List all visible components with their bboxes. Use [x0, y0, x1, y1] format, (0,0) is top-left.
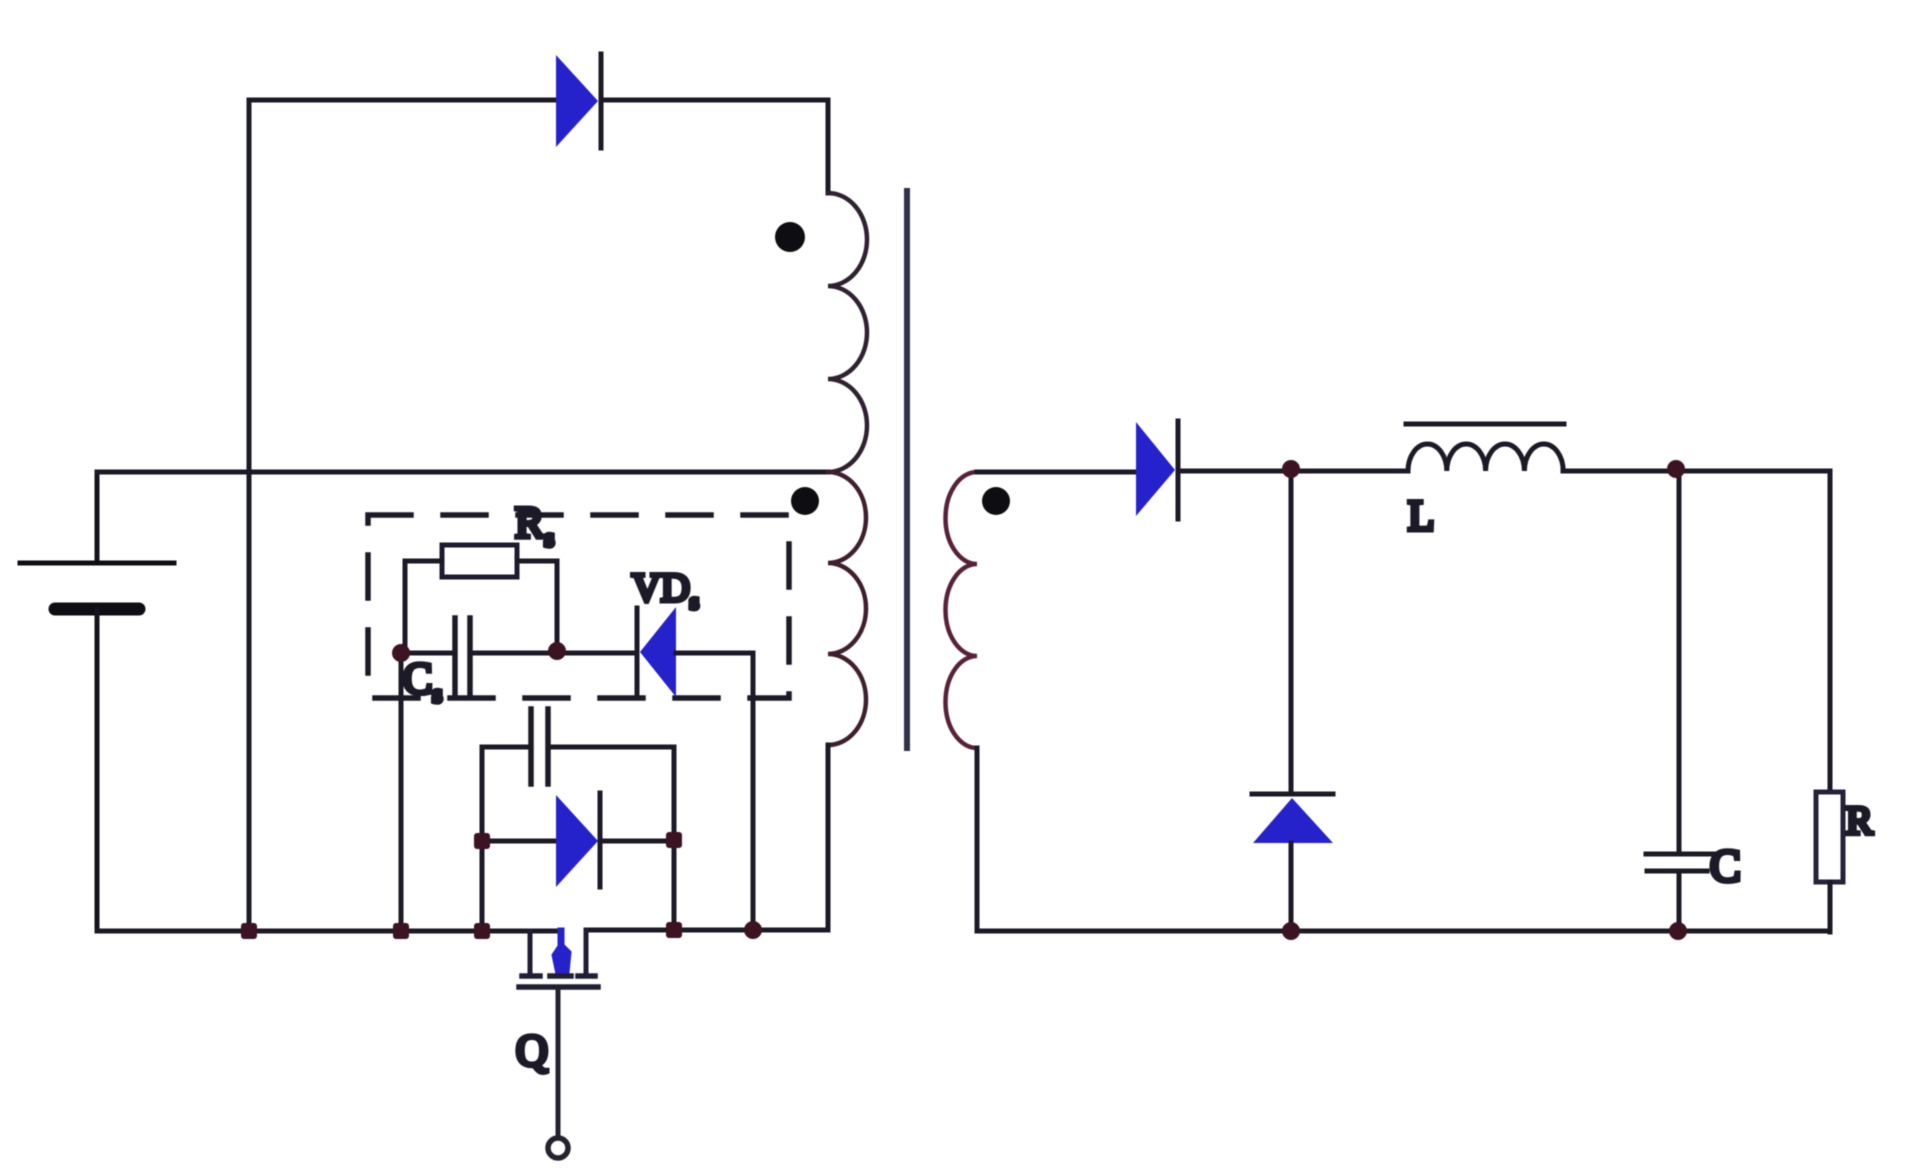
node secondary bottom at freewheel diode [1282, 922, 1300, 940]
wire top rail from VD1 cathode to transformer reset winding [601, 98, 828, 103]
node bottom rail at Cs branch [393, 923, 409, 939]
transformer T1 secondary winding [946, 472, 977, 931]
diode VD2 (switch snubber diode) [482, 793, 674, 887]
diode VD1 (reset/demagnetizing diode) [556, 54, 601, 148]
svg-text:Q: Q [516, 1026, 548, 1075]
node bottom rail at snubber right leg [666, 922, 682, 938]
resistor Rs [405, 545, 557, 650]
battery B1 (DC source) [20, 472, 174, 931]
node snubber diode left [474, 833, 490, 849]
node junction dots [241, 460, 1687, 940]
svg-text:VDs: VDs [632, 565, 699, 614]
polarity dot (primary) [791, 487, 819, 515]
svg-text:Cs: Cs [403, 654, 442, 708]
wire rectifier to inductor [1178, 469, 1408, 474]
wire snubber right leg [672, 747, 677, 930]
wire secondary top rail to rectifier diode [977, 470, 1136, 475]
wire right edge down to load resistor [1828, 471, 1833, 792]
svg-text:L: L [1408, 493, 1434, 540]
capacitor C1 (switch snubber capacitor) [482, 709, 674, 784]
svg-text:Rs: Rs [515, 498, 554, 552]
transformer T1 primary winding (lower left) [828, 472, 866, 930]
diode VD2f (freewheeling diode) [1252, 471, 1333, 932]
polarity dot (reset winding) [775, 222, 805, 252]
svg-text:R: R [1846, 798, 1873, 843]
node secondary top at output capacitor [1667, 460, 1685, 478]
diode VDs (clamp diode) [637, 607, 753, 930]
wire inductor to output node and right edge [1563, 469, 1830, 474]
wire snubber left leg [480, 747, 485, 931]
wire Cs branch down to negative rail [399, 653, 404, 931]
wire bottom rail (drain side, right of switch Q) [586, 928, 828, 933]
node Rs/Cs left [392, 644, 410, 662]
wire battery positive rail to transformer primary junction [97, 470, 828, 475]
capacitor C (output filter) [1646, 471, 1713, 932]
node bottom rail at snubber left leg [474, 923, 490, 939]
resistor R (load) [1816, 792, 1843, 882]
capacitor Cs [401, 618, 636, 696]
transistor Q (MOSFET switch) [519, 930, 598, 1158]
snubber outline dashed box [368, 515, 789, 698]
node secondary bottom at output capacitor [1669, 922, 1687, 940]
svg-text:C: C [1710, 840, 1741, 891]
wire secondary bottom rail [977, 929, 1830, 934]
node Rs/Cs right [548, 642, 566, 660]
node bottom rail at clamp branch [744, 921, 762, 939]
wire load resistor to bottom rail [1828, 882, 1833, 932]
transformer T1 reset winding (upper left) [828, 100, 867, 472]
inductor L [1406, 424, 1564, 471]
transformer T1 core [904, 191, 910, 748]
polarity dot (secondary) [982, 487, 1010, 515]
wire left loop vertical (reset return to negative rail) [247, 100, 252, 931]
diode D1 (output rectifier) [1136, 421, 1178, 519]
node snubber diode right [666, 832, 682, 848]
node bottom rail at reset return [241, 923, 257, 939]
wire top rail from reset loop left to diode VD1 anode [249, 98, 556, 103]
node secondary top at freewheel diode [1282, 460, 1300, 478]
wire bottom negative rail (left of switch Q) [97, 929, 561, 934]
